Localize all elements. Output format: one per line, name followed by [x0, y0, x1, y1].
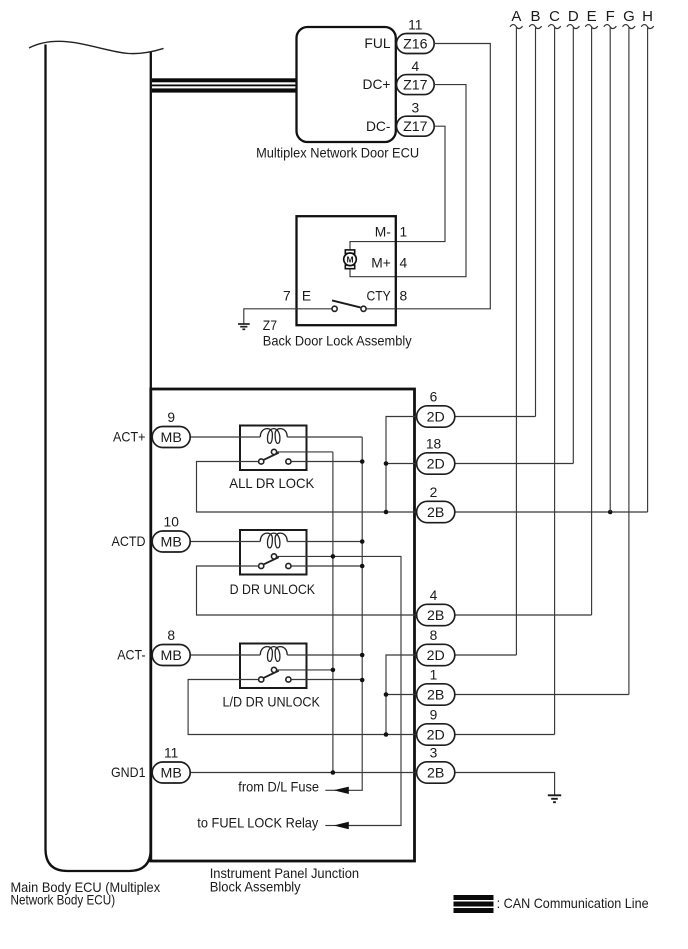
svg-text:from D/L Fuse: from D/L Fuse	[238, 780, 319, 795]
wire: CAN communication line bus (3 bars)	[152, 78, 297, 92]
wire: K2 coil to D/L fuse vertical	[287, 541, 362, 543]
svg-text:Z17: Z17	[403, 119, 428, 135]
svg-text:Back Door Lock Assembly: Back Door Lock Assembly	[263, 333, 412, 348]
svg-text:M: M	[346, 255, 353, 265]
svg-text:MB: MB	[161, 534, 182, 550]
svg-text:ACT-: ACT-	[117, 648, 145, 663]
connector 2B oval pin 1	[417, 684, 455, 705]
svg-text:ACTD: ACTD	[112, 534, 146, 549]
wire: column G vertical	[628, 28, 630, 695]
wire: K3 tip to ground net vertical	[277, 669, 333, 671]
motor M1 body	[344, 250, 357, 269]
svg-text:18: 18	[426, 437, 442, 452]
relay K2 switch right contact	[286, 563, 291, 568]
wire: 2B3 to right ground	[455, 773, 555, 795]
wire: column A vertical	[515, 28, 517, 656]
wire: D/L fuse net vertical with arrow corner	[349, 437, 363, 790]
wire: column H vertical	[647, 28, 649, 513]
wire: column B vertical	[535, 28, 537, 417]
switch S1 contacts and arm (courtesy switch)	[332, 300, 396, 311]
wire: 2D6 to column B	[455, 416, 536, 418]
connector 2D oval pin 18	[417, 453, 455, 474]
svg-text:F: F	[606, 8, 615, 25]
svg-text:3: 3	[411, 100, 419, 115]
wire: 2D6/2D18/2B2 bus vertical	[386, 417, 417, 513]
wire: 2D18 to column D	[455, 463, 574, 465]
relay K1 switch right contact	[286, 459, 291, 464]
wire: 2B1 oval link	[386, 694, 417, 696]
svg-text:D DR UNLOCK: D DR UNLOCK	[230, 582, 316, 597]
ECU U2: Multiplex Network Door ECU box	[297, 27, 396, 142]
junction dot: bus x 2D18 link	[384, 461, 389, 466]
svg-text:9: 9	[430, 708, 438, 723]
wire: 2D8 to column A	[455, 654, 517, 656]
relay K2 switch tip contact	[271, 554, 276, 559]
wire: K3 coil to D/L fuse vertical	[287, 654, 362, 656]
svg-text:CTY: CTY	[367, 288, 391, 303]
arrow: to FUEL LOCK Relay	[325, 825, 336, 827]
svg-text:1: 1	[400, 225, 408, 240]
svg-text:to FUEL LOCK Relay: to FUEL LOCK Relay	[197, 816, 318, 831]
svg-text:Network Body ECU): Network Body ECU)	[11, 893, 116, 908]
svg-text:ACT+: ACT+	[113, 430, 146, 445]
svg-text:Multiplex Network Door ECU: Multiplex Network Door ECU	[256, 146, 419, 161]
wire: ground net vertical (K1 tip down to GND1 row)	[332, 452, 334, 773]
junction dot: D/L fuse x K2 coil row	[360, 539, 365, 544]
svg-text:L/D DR UNLOCK: L/D DR UNLOCK	[223, 695, 321, 710]
wire: 2D8/2B1/2D9 bus vertical	[386, 655, 417, 735]
relay K3 switch left contact	[259, 677, 264, 682]
svg-text:9: 9	[167, 410, 175, 425]
svg-text:: CAN Communication Line: : CAN Communication Line	[497, 896, 649, 911]
relay K2 coil	[260, 533, 287, 548]
junction dot: ground net x GND1 row	[331, 770, 336, 775]
wire: MB pin10 to K2 coil	[190, 541, 260, 543]
svg-text:1: 1	[430, 668, 438, 683]
svg-text:Z17: Z17	[403, 77, 428, 93]
svg-text:E: E	[587, 8, 597, 25]
wire: 2D9 to column C	[455, 734, 555, 736]
svg-text:3: 3	[430, 746, 438, 761]
svg-text:E: E	[302, 288, 311, 303]
junction dot: bus x 2D9 row	[384, 732, 389, 737]
node F break squiggle	[604, 25, 617, 29]
relay K2 D DR UNLOCK box	[240, 530, 307, 575]
relay K1 ALL DR LOCK box	[240, 426, 307, 471]
wire: K3 NO contact to D/L fuse vertical	[291, 679, 362, 681]
connector 2B oval pin 3	[417, 762, 455, 783]
arrow: from D/L Fuse	[325, 789, 336, 791]
svg-text:8: 8	[167, 628, 175, 643]
svg-text:2B: 2B	[427, 505, 444, 521]
relay K3 switch arm	[263, 671, 279, 679]
svg-text:C: C	[549, 8, 560, 25]
svg-text:MB: MB	[161, 430, 182, 446]
relay K2 switch arm	[263, 557, 279, 565]
relay K1 switch arm	[263, 453, 279, 461]
ECU U1 torn-edge wave top	[29, 41, 164, 53]
wire: K2 tip to FUEL LOCK relay arrow	[277, 556, 401, 825]
relay K1 coil	[260, 429, 287, 444]
wire: MB pin9 to K1 coil	[190, 436, 260, 438]
svg-text:4: 4	[430, 588, 438, 603]
junction dot: D/L fuse x K2 NO row	[360, 564, 365, 569]
wire: Z17 DC+ to M+ pin 4	[350, 85, 466, 277]
wire: column C vertical	[554, 28, 556, 735]
junction dot: bus x 2B2 row	[384, 510, 389, 515]
ground symbol right (2B pin3)	[548, 795, 561, 802]
svg-text:2: 2	[430, 485, 438, 500]
ECU U1: Main Body ECU body outline	[46, 45, 151, 872]
legend: CAN communication line symbol	[454, 895, 494, 913]
connector Z17 oval pin 4	[397, 75, 435, 95]
junction dot: column F x 2B2 row	[608, 510, 613, 515]
connector 2D oval pin 8	[417, 644, 455, 665]
connector 2B oval pin 4	[417, 604, 455, 625]
svg-text:4: 4	[400, 255, 408, 270]
svg-text:8: 8	[400, 288, 408, 303]
svg-text:Z7: Z7	[263, 318, 277, 333]
svg-text:6: 6	[430, 390, 438, 405]
junction dot: ground net x K3 tip row	[331, 668, 336, 673]
svg-text:8: 8	[430, 628, 438, 643]
wire: K2 common routed to 2B pin4	[197, 566, 417, 615]
relay K3 switch tip contact	[271, 667, 276, 672]
svg-text:DC-: DC-	[366, 119, 391, 134]
wire: K2 NO contact to D/L fuse vertical	[291, 565, 362, 567]
junction dot: bus x 2B1 link	[384, 692, 389, 697]
wire: K3 common routed to 2D pin9	[188, 680, 417, 735]
relay K2 switch left contact	[259, 563, 264, 568]
svg-text:ALL DR LOCK: ALL DR LOCK	[229, 476, 315, 491]
wire: column E vertical	[591, 28, 593, 616]
svg-text:4: 4	[411, 59, 419, 74]
connector 2D oval pin 6	[417, 406, 455, 427]
wire: E pin to ground	[244, 309, 332, 324]
svg-text:2B: 2B	[427, 608, 444, 624]
switch S1: Back Door Lock Assembly box Z7	[297, 216, 396, 325]
wire: K1 NO contact to D/L fuse vertical	[291, 461, 362, 463]
relay K3 L/D DR UNLOCK box	[240, 644, 307, 689]
svg-text:G: G	[623, 8, 635, 25]
junction dot: D/L fuse x K3 NO row	[360, 678, 365, 683]
wire: 2B1 to column G	[455, 694, 629, 696]
wire: K1 common routed to 2B pin2	[197, 462, 417, 513]
junction block: Instrument Panel Junction Block Assembly box	[151, 389, 415, 861]
svg-text:2D: 2D	[427, 648, 445, 664]
node G break squiggle	[623, 25, 636, 29]
relay K1 switch tip contact	[271, 449, 276, 454]
relay K1 switch left contact	[259, 459, 264, 464]
junction dot: ground net x K2 tip row	[331, 554, 336, 559]
svg-text:11: 11	[408, 18, 422, 33]
svg-text:2B: 2B	[427, 687, 444, 703]
junction dot: D/L fuse x K1 NO row	[360, 459, 365, 464]
svg-text:D: D	[568, 8, 579, 25]
svg-text:DC+: DC+	[363, 77, 391, 92]
relay K3 coil	[260, 647, 287, 662]
svg-text:2B: 2B	[427, 765, 444, 781]
svg-text:11: 11	[164, 746, 178, 761]
svg-text:A: A	[511, 8, 521, 25]
wire: Z17 DC- to M- pin 1	[350, 126, 445, 250]
svg-text:Z16: Z16	[403, 36, 428, 52]
wire: 2D18 oval link	[386, 463, 417, 465]
wire: K1 tip to ground vertical	[277, 451, 333, 453]
connector Z16 oval pin 11	[397, 34, 435, 54]
svg-text:2D: 2D	[427, 409, 445, 425]
svg-text:MB: MB	[161, 648, 182, 664]
junction dot: D/L fuse x K3 coil row	[360, 653, 365, 658]
wire: column F vertical	[609, 28, 611, 513]
wire: K1 coil to D/L fuse vertical	[287, 436, 362, 438]
wire: MB pin8 to K3 coil	[190, 654, 260, 656]
svg-text:FUL: FUL	[364, 36, 390, 51]
node B break squiggle	[529, 25, 542, 29]
svg-text:M-: M-	[375, 225, 391, 240]
node D break squiggle	[567, 25, 580, 29]
node A break squiggle	[510, 25, 523, 29]
wire: GND1 row MB pin11 to 2B pin3	[190, 772, 416, 774]
wire: column D vertical	[572, 28, 574, 464]
connector Z17 oval pin 3	[397, 116, 435, 136]
node C break squiggle	[548, 25, 561, 29]
svg-text:Block Assembly: Block Assembly	[210, 879, 301, 894]
svg-text:7: 7	[283, 288, 291, 303]
svg-text:MB: MB	[161, 765, 182, 781]
svg-text:B: B	[530, 8, 540, 25]
svg-text:2D: 2D	[427, 456, 445, 472]
wire: 2B2 to columns F and H	[455, 511, 648, 513]
node E break squiggle	[585, 25, 598, 29]
wire: 2B4 to column E	[455, 614, 592, 616]
svg-text:10: 10	[164, 515, 180, 530]
node H break squiggle	[641, 25, 654, 29]
svg-text:GND1: GND1	[111, 765, 146, 780]
connector 2D oval pin 9	[417, 724, 455, 745]
svg-text:M+: M+	[371, 255, 391, 270]
svg-text:2D: 2D	[427, 727, 445, 743]
svg-text:H: H	[642, 8, 653, 25]
ground symbol at Z7 E pin	[238, 324, 250, 329]
relay K3 switch right contact	[286, 677, 291, 682]
wire: Z16 FUL to CTY pin 8	[396, 44, 491, 309]
connector 2B oval pin 2	[417, 501, 455, 522]
